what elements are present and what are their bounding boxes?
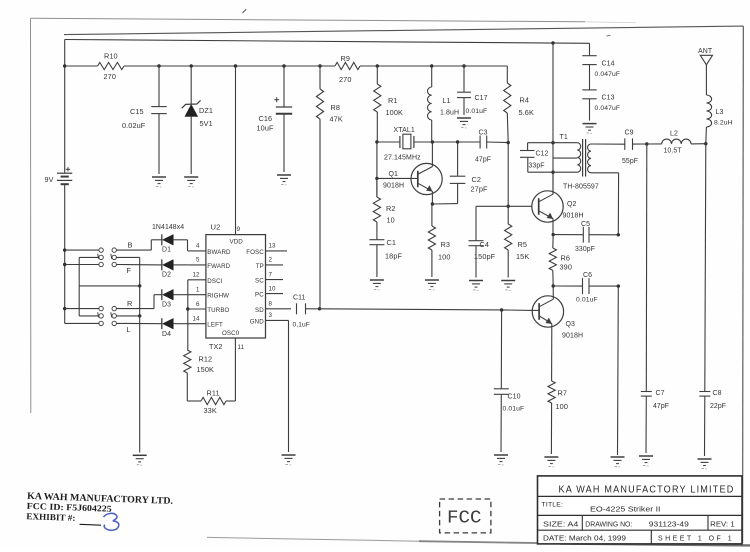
svg-text:11: 11 [238,344,245,351]
svg-text:14: 14 [193,316,201,323]
wire D2 to U2 pin 5 [173,264,188,266]
wire DSCI TURBO tie [186,280,189,350]
capacitor C15 [122,66,167,174]
svg-text:D1: D1 [162,247,171,254]
svg-text:47pF: 47pF [653,403,669,410]
wire supply drop to C14 [589,43,591,55]
U2 pin 13 FOSC [246,243,287,256]
wire Q1 emitter to C2 bottom [432,203,457,205]
wire C7 node to L2 [647,143,662,145]
svg-text:C4: C4 [480,240,490,249]
svg-text:TITLE:: TITLE: [542,502,564,509]
resistor R7 100 [548,381,568,454]
svg-text:33pF: 33pF [529,163,545,170]
svg-text:R4: R4 [520,96,530,105]
ground C10 [494,455,508,465]
svg-text:SC: SC [255,278,264,285]
svg-text:10: 10 [269,285,277,292]
transistor Q3 9018H [532,286,583,381]
svg-text:TH-805597: TH-805597 [563,184,599,191]
wire R1 to crystal node [376,112,378,142]
node SW2 common right [138,314,141,317]
svg-text:C8: C8 [713,390,722,397]
svg-text:DSCI: DSCI [207,278,222,285]
transistor Q2 9018H [532,173,584,235]
svg-text:R2: R2 [386,204,396,213]
wire SD line to Q3 base [306,309,533,311]
inductor L3 8.2uH [706,65,733,144]
svg-text:U2: U2 [211,223,221,232]
svg-text:8.2uH: 8.2uH [714,120,733,127]
node battery rail switch B [63,248,66,251]
node battery to R10 rail [63,64,66,67]
wire T1 center tap lead [553,157,577,159]
wire rail battery to R10 [65,65,98,67]
scan speck near C14 [607,34,611,37]
svg-text:0.01uF: 0.01uF [503,406,525,413]
title block date row [543,535,732,542]
svg-text:4: 4 [196,243,200,250]
svg-text:R3: R3 [441,240,451,249]
wire rail to switch F [65,264,99,266]
svg-text:R5: R5 [518,240,528,249]
svg-text:Q2: Q2 [567,201,577,208]
svg-text:GND: GND [250,318,264,325]
svg-text:L2: L2 [670,131,678,138]
node T1 primary top crossing [551,141,554,144]
node C11 R8 junction [318,307,321,310]
page border frame top [64,26,743,34]
title block title row [542,502,661,514]
svg-text:SHEET 1 OF 1: SHEET 1 OF 1 [658,535,732,542]
ground C15 [152,177,166,187]
wire U2 GND pin3 down [288,320,290,452]
svg-text:FOSC: FOSC [246,249,264,256]
node C17 rail [462,64,465,67]
wire VDD rail to U2 pin 9 [235,66,237,235]
stamp exhibit underline [80,523,102,526]
antenna ANT [698,48,713,65]
svg-text:10.5T: 10.5T [664,148,683,155]
svg-text:C10: C10 [508,394,521,401]
U2 pin 7 SC [255,271,283,284]
switch SW2 pole R contacts [99,299,133,311]
page bottom scan edge [207,537,750,545]
svg-text:27pF: 27pF [471,185,488,194]
ground R3 [425,280,439,290]
svg-text:Q1: Q1 [389,171,399,178]
svg-text:L1: L1 [443,98,451,105]
svg-text:C3: C3 [479,130,488,137]
transformer T1 TH-805597 [560,134,599,191]
svg-text:9018H: 9018H [383,183,404,190]
svg-text:C17: C17 [475,95,488,102]
svg-text:R8: R8 [331,103,341,112]
svg-text:KA WAH MANUFACTORY LIMITED: KA WAH MANUFACTORY LIMITED [559,485,735,496]
wire C2 node to C3 [458,141,481,143]
resistor R8 [316,66,342,124]
inductor L1 1.8uH [428,66,460,142]
wire T1 secondary bottom lead [591,173,619,235]
wire switch R to D3 [116,295,161,309]
node supply to T1 junction [551,41,554,44]
svg-text:T1: T1 [560,134,568,141]
wire switch B to D1 [116,240,161,250]
svg-text:FCC: FCC [447,508,482,529]
svg-text:XTAL1: XTAL1 [394,127,415,134]
svg-text:C11: C11 [293,295,305,302]
svg-text:270: 270 [339,75,351,84]
svg-text:1N4148x4: 1N4148x4 [152,224,184,231]
diode D1 1N4148 [152,224,184,254]
wire battery positive up left side [64,40,66,174]
inductor L2 10.5T [662,131,691,155]
wire C8 node down [705,144,706,392]
node C16 rail [282,64,285,67]
svg-text:13: 13 [269,243,277,250]
svg-text:C2: C2 [472,175,482,184]
ground R7 [544,457,558,467]
svg-text:1: 1 [196,287,200,294]
wire T1 primary top lead [528,142,578,144]
battery 9V [45,167,73,184]
svg-text:18pF: 18pF [385,252,402,261]
svg-text:0.047uF: 0.047uF [595,71,621,78]
svg-text:931123-49: 931123-49 [649,519,689,528]
resistor R1 100K [374,66,403,117]
svg-text:C16: C16 [259,114,273,123]
svg-text:Q3: Q3 [566,321,576,328]
capacitor C13 0.047uF [582,90,620,121]
wire D4 to U2 pin 14 [173,323,188,325]
wire battery minus down to switches [64,184,66,323]
svg-text:R7: R7 [558,389,568,398]
scan speck top [243,9,247,13]
capacitor C17 0.01uF [457,66,488,115]
svg-text:EXHIBIT #:: EXHIBIT #: [26,511,75,523]
svg-text:3: 3 [269,312,273,319]
capacitor C10 0.01uF [494,310,524,452]
svg-text:150pF: 150pF [474,252,496,261]
wire crystal to C2 top node [432,141,457,143]
node R8 rail [318,64,321,67]
svg-text:OSC0: OSC0 [222,330,240,337]
svg-text:R12: R12 [199,355,213,364]
svg-text:390: 390 [560,263,572,272]
capacitor C12 33pF [520,143,549,173]
resistor R9 [335,54,360,84]
capacitor C5 330pF [553,221,618,253]
node battery rail switch R [63,307,66,310]
capacitor C8 22pF [699,390,726,456]
capacitor C16 10uF electrolytic [257,66,293,172]
svg-text:5V1: 5V1 [200,119,213,128]
svg-text:R10: R10 [104,52,118,61]
node Q1 base [375,177,378,180]
outer sheet border top [31,18,637,22]
svg-text:C14: C14 [602,61,615,68]
svg-text:8: 8 [269,301,273,308]
switch SW1 pole F contacts [99,262,132,275]
node C6 tap [552,284,555,287]
wire SW1 common left bracket [79,257,99,286]
wire SW2 common left bracket [79,286,99,316]
wire C6 right down to ground [617,286,620,455]
svg-text:47pF: 47pF [475,157,491,164]
wire R11 to pin 11 [226,400,235,402]
wire rail R9 to R4 [360,65,507,67]
capacitor C9 56pF [622,130,638,166]
wire C9 to C7 node [633,143,647,145]
capacitor C6 0.01uF [553,272,618,304]
wire switch F to D2 [116,264,161,266]
svg-text:L3: L3 [716,109,724,116]
svg-text:C5: C5 [581,221,590,228]
node battery rail switch F [63,263,66,266]
svg-text:330pF: 330pF [575,246,595,253]
ground C1 [370,280,384,290]
U2 pin 6 TURBO [188,301,230,314]
svg-text:VDD: VDD [230,239,244,246]
capacitor C2 27pF [450,142,488,204]
svg-text:C13: C13 [602,95,615,102]
svg-text:0.047uF: 0.047uF [595,105,621,112]
svg-text:C6: C6 [583,272,592,279]
svg-text:55pF: 55pF [622,158,638,165]
ground switch common [133,455,147,465]
diode D4 1N4148 [162,318,174,338]
svg-text:D2: D2 [162,272,171,279]
node C5 right [617,233,620,236]
wire switch common link line [79,285,140,287]
diode D3 1N4148 [162,289,174,308]
wire T1 primary bottom lead [528,171,578,173]
node C2 top [456,140,459,143]
node C5 tap [552,233,555,236]
svg-text:R11: R11 [207,389,220,398]
U2 pin 2 TP [256,257,283,270]
node crystal right collector [431,140,434,143]
svg-text:0,1uF: 0,1uF [293,322,310,329]
svg-text:D3: D3 [162,302,171,309]
svg-text:C12: C12 [536,151,549,158]
resistor R3 100 [428,204,450,277]
ground secondary line [611,457,625,467]
svg-text:100: 100 [438,253,450,262]
capacitor C11 0.1uF [293,295,310,329]
title block size row [543,519,735,528]
resistor R12 150K [184,350,214,374]
IC U2 box [206,223,266,339]
svg-text:C15: C15 [130,107,144,116]
node C3 R4 [507,141,510,144]
ground C8 [698,459,712,469]
U2 pin 12 DSCI [188,272,223,285]
svg-text:TURBO: TURBO [207,307,229,314]
svg-text:47K: 47K [330,115,343,124]
wire rail to switch R [65,308,99,310]
svg-text:R9: R9 [341,54,351,63]
zener diode DZ1 5V1 [182,66,213,174]
node L1 rail [430,64,433,67]
transistor Q1 9018H [377,142,442,204]
svg-text:1.8uH: 1.8uH [440,110,459,117]
U2 pin 10 PC [255,285,283,298]
node C10 tap [500,308,503,311]
svg-text:270: 270 [104,72,116,81]
node Q1 emitter [431,202,434,205]
svg-text:DATE: March 04, 1999: DATE: March 04, 1999 [543,535,626,542]
wire link rail down to ground [139,286,141,453]
svg-text:0.01uF: 0.01uF [576,297,598,304]
svg-text:10uF: 10uF [257,124,274,133]
ground R5 [501,281,515,291]
diode D2 1N4148 [162,259,174,278]
svg-text:ANT: ANT [698,48,713,55]
resistor R4 5.6K [504,66,534,143]
capacitor C4 150pF [469,206,496,277]
svg-text:LEFT: LEFT [207,322,223,329]
wire T1 secondary top to C9 [591,143,625,145]
wire C3 to R4 node [487,141,509,144]
capacitor C14 0.047uF [582,56,620,90]
svg-text:100K: 100K [386,108,403,117]
ground C4 [469,281,483,291]
svg-text:REV: 1: REV: 1 [710,521,735,528]
U2 pin 5 FWARD [188,257,231,270]
svg-text:9018H: 9018H [563,213,584,220]
svg-text:15K: 15K [516,252,529,261]
svg-text:DRAWING NO:: DRAWING NO: [585,521,632,528]
node C15 rail [157,64,160,67]
svg-text:10: 10 [387,216,395,225]
wire R8 down to C11 node [319,119,321,309]
FCC dashed stamp box [440,499,491,533]
svg-text:C9: C9 [625,130,634,137]
wire L2 to antenna node [691,143,706,145]
ground C7 [639,456,653,466]
wire C3 node down to Q2 base [507,143,509,207]
svg-text:9: 9 [237,226,241,233]
svg-text:R1: R1 [388,96,398,105]
node crystal left [375,140,378,143]
svg-text:L: L [127,325,131,334]
svg-text:0.02uF: 0.02uF [122,121,146,130]
resistor R10 [98,52,124,82]
svg-text:D4: D4 [162,331,171,338]
wire rail corner to switch L [65,322,99,324]
capacitor C1 18pF [369,222,402,277]
ground C17 [457,118,471,128]
crystal XTAL1 27.145MHz [377,127,433,161]
svg-text:EO-4225 Striker II: EO-4225 Striker II [590,505,661,514]
resistor R2 10 [373,178,395,224]
wire D3 to U2 pin 1 [173,294,188,296]
node VDD rail [234,64,237,67]
title block company name [559,485,735,496]
wire supply drop to T1 center tap [552,43,554,194]
svg-text:RIGHW: RIGHW [207,293,229,300]
svg-text:B: B [128,241,133,250]
svg-text:C1: C1 [387,238,397,247]
node C6 right [617,284,620,287]
svg-text:FWARD: FWARD [207,263,230,270]
wire top supply rail [65,40,590,44]
svg-text:27.145MHz: 27.145MHz [384,154,421,161]
wire rail to switch B [65,249,99,251]
ground U2 GND [282,455,296,465]
svg-text:TP: TP [256,263,264,270]
svg-text:DZ1: DZ1 [199,106,213,115]
page border frame right [742,26,745,543]
node link rail [138,284,141,287]
resistor R11 33K [201,389,226,416]
svg-text:9018H: 9018H [562,333,583,340]
svg-text:5: 5 [196,257,200,264]
node antenna L3 C8 [704,142,707,145]
ground C13 [583,124,597,134]
switch SW1 common pole contacts [98,254,117,260]
wire R12 to R11 [187,373,201,401]
svg-text:PC: PC [255,292,264,299]
U2 pin 1 RIGHW [188,287,229,300]
svg-text:12: 12 [193,272,201,279]
handwritten exhibit number 3 [104,513,119,530]
svg-text:R: R [127,299,132,308]
svg-text:5.6K: 5.6K [519,108,534,117]
resistor R5 15K [505,206,530,277]
wire C7 node down [645,144,648,392]
node DZ1 rail [190,64,193,67]
U2 pin 14 LEFT [188,316,223,329]
node C7 tap [645,142,648,145]
ground DZ1 [184,177,198,187]
wire rail R10 to R9 [124,65,335,67]
svg-text:22pF: 22pF [710,403,726,410]
switch SW2 pole L contacts [99,321,131,334]
capacitor C7 47pF [641,390,669,453]
outer sheet border left [30,18,32,413]
svg-text:C7: C7 [656,390,665,397]
resistor R6 390 [549,235,572,286]
svg-text:100: 100 [556,402,568,411]
wire Q2 base line [476,205,532,207]
U2 pin 4 BWARD [188,243,231,256]
svg-text:TX2: TX2 [209,342,222,351]
capacitor C3 47pF [475,130,491,164]
svg-text:0.01uF: 0.01uF [466,108,488,115]
switch SW1 pole B contacts [99,241,133,253]
ground C16 [277,175,291,185]
wire base node down [376,142,378,197]
node R1 rail [376,64,379,67]
wire SW1 common right to link rail [116,257,139,286]
svg-text:F: F [127,266,132,275]
U2 pin 8 SD [255,301,291,314]
svg-text:SIZE: A4: SIZE: A4 [543,521,578,528]
node T1 primary bottom collector [551,171,554,174]
wire SW2 common right to link rail [116,315,139,317]
svg-text:7: 7 [269,271,273,278]
wire D1 to U2 pin 4 [173,240,187,251]
U2 pin 3 GND [250,312,289,325]
svg-text:6: 6 [196,301,200,308]
wire switch L to D4 [116,322,161,324]
svg-text:33K: 33K [204,406,217,415]
switch SW2 common pole contacts [98,312,117,318]
node Q2 base [507,205,510,208]
svg-text:SD: SD [255,307,264,314]
